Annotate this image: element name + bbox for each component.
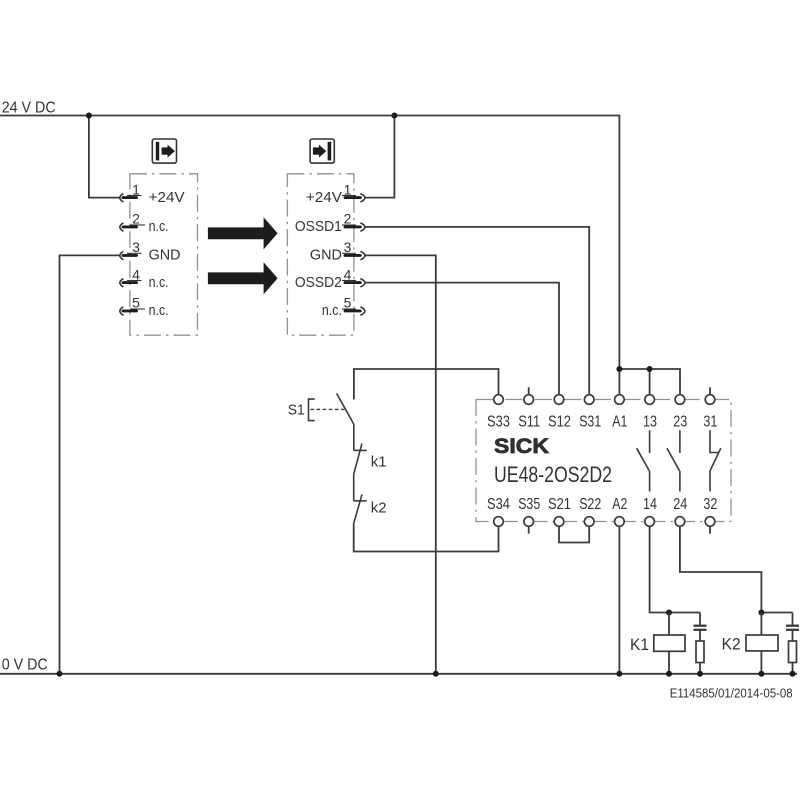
svg-text:32: 32 <box>703 496 717 513</box>
svg-text:3: 3 <box>344 239 352 255</box>
svg-text:S34: S34 <box>487 496 510 513</box>
svg-text:4: 4 <box>344 266 352 282</box>
svg-text:+24V: +24V <box>149 189 185 206</box>
wire right connector GND to 0V bus <box>365 255 436 673</box>
svg-text:0 V DC: 0 V DC <box>2 656 48 673</box>
svg-text:A1: A1 <box>612 413 627 430</box>
terminal 13 <box>645 395 655 405</box>
svg-text:S21: S21 <box>548 496 571 513</box>
wire K2 coil bottom lead <box>760 651 762 674</box>
resistor R2 <box>789 641 797 663</box>
wire 24V supply bus <box>0 116 619 395</box>
svg-text:S35: S35 <box>518 496 540 513</box>
wire k1 to k2 <box>353 474 355 501</box>
junction dot K2 branch <box>758 610 764 616</box>
wire 0V return bus <box>0 673 797 675</box>
contact k2 (feedback) <box>354 494 367 523</box>
terminal 31 circle <box>705 395 715 405</box>
wire S21-S22 jumper <box>559 526 589 542</box>
wire K1 coil bottom lead <box>668 651 670 674</box>
stub terminal 31 <box>709 387 711 395</box>
svg-text:n.c.: n.c. <box>322 302 342 319</box>
pin 1 of X2 <box>342 181 365 202</box>
svg-text:24: 24 <box>673 496 687 513</box>
switch S1 blade <box>337 393 354 424</box>
svg-text:5: 5 <box>132 295 140 311</box>
stub terminal 32 <box>709 526 711 534</box>
contact 13-14 (NO) <box>637 430 650 491</box>
svg-text:+24V: +24V <box>306 189 342 206</box>
pin 2 of X2 <box>342 211 365 232</box>
junction dot A2 / 0V bus <box>616 671 622 677</box>
safety relay U1 body (dash-dot box) <box>476 400 731 522</box>
svg-text:S1: S1 <box>288 402 305 419</box>
svg-text:13: 13 <box>643 413 657 430</box>
resistor R1 <box>696 641 704 663</box>
wire OSSD2 to terminal S12 <box>365 283 559 395</box>
svg-text:S12: S12 <box>548 413 571 430</box>
terminal 32 circle <box>705 517 715 527</box>
svg-text:2: 2 <box>132 211 140 227</box>
flow arrow lower (X1 to X2) <box>208 262 278 294</box>
junction dot right GND / 0V bus <box>433 671 439 677</box>
junction dot 13 branch <box>647 366 653 372</box>
terminal S35 circle <box>524 517 534 527</box>
junction dot K2 coil / 0V bus <box>758 671 764 677</box>
terminal S34 <box>494 517 504 527</box>
svg-text:K1: K1 <box>630 635 649 654</box>
pin 4 of X1 <box>120 266 142 287</box>
pin 4 of X2 <box>342 266 365 287</box>
svg-text:k2: k2 <box>371 500 387 517</box>
terminal 24 <box>675 517 685 527</box>
pin 5 of X1 <box>120 295 145 316</box>
wire terminal 24 to K2 network <box>680 526 793 612</box>
svg-text:k1: k1 <box>371 454 387 471</box>
stub terminal S11 <box>528 387 530 395</box>
pin 1 of X1 <box>120 181 142 202</box>
wire k2 to S34 <box>354 524 499 552</box>
svg-text:5: 5 <box>344 295 352 311</box>
capacitor C1 <box>694 613 707 642</box>
wire A2 to 0V bus <box>618 526 620 674</box>
junction dot R2 / 0V bus <box>790 671 796 677</box>
junction dot GND / 0V bus <box>57 671 63 677</box>
svg-text:A2: A2 <box>612 496 627 513</box>
terminal 14 <box>645 517 655 527</box>
svg-text:2: 2 <box>344 211 352 227</box>
terminal S11 <box>524 395 534 405</box>
wire terminal 14 to K1 network <box>650 526 700 612</box>
wire S1 to k1 <box>353 424 355 450</box>
svg-text:GND: GND <box>149 247 181 264</box>
connector X1 body (dash-dot box) <box>130 174 198 335</box>
svg-text:n.c.: n.c. <box>149 218 169 235</box>
terminal A2 <box>615 517 625 527</box>
wire left connector pin3 GND to 0V bus <box>60 255 120 673</box>
connector X2 sink icon (arrow into bar) <box>310 139 334 163</box>
switch S1 actuator bracket <box>309 399 315 421</box>
svg-text:GND: GND <box>310 247 342 264</box>
wire K2 coil top lead <box>760 613 762 636</box>
wire OSSD1 to terminal S31 <box>365 227 589 395</box>
svg-text:n.c.: n.c. <box>149 274 169 291</box>
svg-text:E114585/01/2014-05-08: E114585/01/2014-05-08 <box>670 686 793 701</box>
svg-text:n.c.: n.c. <box>149 302 169 319</box>
switch S1 actuator dashed link <box>311 408 345 410</box>
capacitor C2 <box>786 613 799 642</box>
svg-text:OSSD2: OSSD2 <box>295 274 342 291</box>
svg-text:UE48-2OS2D2: UE48-2OS2D2 <box>494 462 612 487</box>
terminal S22 <box>584 517 594 527</box>
contact k1 (feedback) <box>354 443 367 474</box>
svg-text:OSSD1: OSSD1 <box>295 218 342 235</box>
flow arrow upper (X1 to X2) <box>208 217 278 249</box>
svg-text:K2: K2 <box>722 635 741 654</box>
terminal S12 <box>554 395 564 405</box>
terminal S31 <box>584 395 594 405</box>
wire 24V bus to right connector pin1 <box>365 116 394 198</box>
svg-text:31: 31 <box>703 413 717 430</box>
junction dot A1 branch <box>616 366 622 372</box>
svg-text:23: 23 <box>673 413 687 430</box>
contact 31-32 (NC) <box>710 430 721 491</box>
svg-text:1: 1 <box>132 181 140 197</box>
svg-text:S11: S11 <box>518 413 540 430</box>
junction dot K1 coil / 0V bus <box>666 671 672 677</box>
svg-text:1: 1 <box>344 181 352 197</box>
pin 5 of X2 <box>342 295 365 316</box>
relay coil K2 <box>746 635 778 651</box>
svg-text:4: 4 <box>132 266 140 282</box>
junction dot 24V bus / right connector <box>391 113 397 119</box>
pin 2 of X1 <box>120 211 145 232</box>
svg-text:SICK: SICK <box>494 435 549 458</box>
svg-text:S33: S33 <box>487 413 510 430</box>
pin 3 of X2 <box>342 239 365 260</box>
wire 24V bus to left connector pin1 <box>89 116 120 198</box>
relay coil K1 <box>654 635 685 651</box>
svg-text:3: 3 <box>132 239 140 255</box>
wire K1 coil top lead <box>668 613 670 636</box>
terminal A1 <box>615 395 625 405</box>
connector X2 body (dash-dot box) <box>287 174 354 335</box>
junction dot R1 / 0V bus <box>697 671 703 677</box>
connector X1 source icon (bar + arrow out) <box>152 139 176 163</box>
wire R1 to 0V bus <box>699 663 701 674</box>
junction dot 24V bus / left connector <box>86 113 92 119</box>
svg-text:S31: S31 <box>579 413 601 430</box>
pin 3 of X1 <box>120 239 142 260</box>
svg-text:S22: S22 <box>579 496 601 513</box>
wire S33 feedback loop top <box>354 369 499 399</box>
svg-text:24 V DC: 24 V DC <box>2 99 56 116</box>
terminal S21 <box>554 517 564 527</box>
wire R2 to 0V bus <box>792 663 794 674</box>
terminal S33 <box>494 395 504 405</box>
terminal 23 <box>675 395 685 405</box>
wire A1 branch to terminals 13 and 23 <box>619 369 680 395</box>
svg-text:14: 14 <box>643 496 657 513</box>
junction dot K1 branch <box>666 610 672 616</box>
contact 23-24 (NO) <box>667 430 680 491</box>
stub terminal S35 <box>528 526 530 534</box>
